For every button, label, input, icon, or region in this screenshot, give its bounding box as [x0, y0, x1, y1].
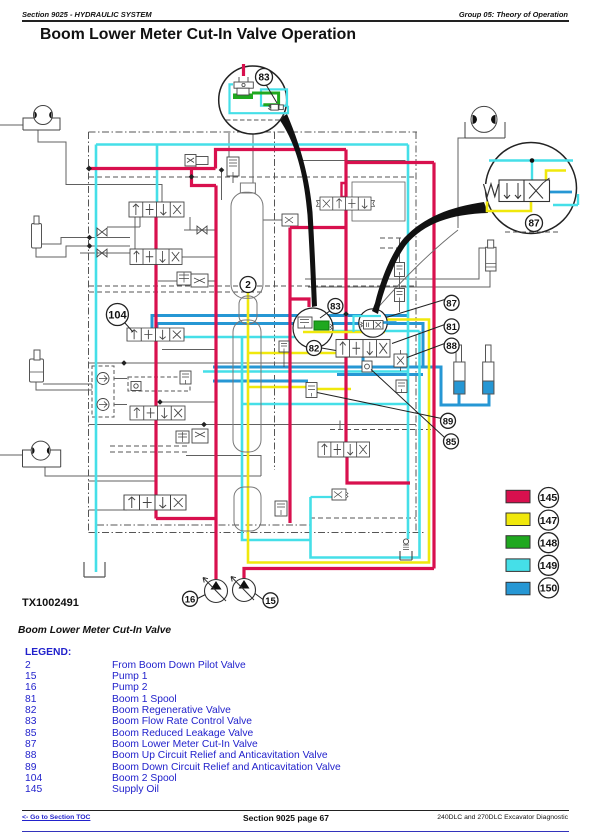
footer bottom rule: [22, 831, 569, 832]
wire supply x434 vertical: [432, 163, 435, 569]
wire supply valve5 down: [347, 457, 410, 483]
inset 83 spring: [330, 324, 332, 330]
wire cylinder2 A: [43, 383, 92, 385]
check to tank CT1: [400, 539, 412, 560]
svg-text:16: 16: [185, 594, 196, 605]
check valve CV2: [97, 249, 107, 257]
leader 83 top: [267, 86, 278, 104]
magnifier tail 87: [372, 202, 488, 314]
legend swatch 149: [506, 559, 530, 572]
valve V2: [130, 249, 182, 264]
wire y510 valve4: [89, 509, 128, 511]
inset yellow top right: [546, 171, 566, 181]
leader 82: [322, 348, 337, 351]
dash-dot border bottom: [89, 532, 425, 534]
svg-text:83: 83: [330, 302, 341, 313]
wire cyan y371: [203, 370, 408, 373]
svg-text:82: 82: [309, 344, 320, 355]
inset yellow U: [487, 202, 531, 212]
legend circle 149: [539, 555, 559, 575]
magnifier circle 87: [486, 143, 577, 234]
load sense cylinder CYL3: [486, 240, 496, 271]
wire swivel pipe: [458, 138, 465, 228]
svg-text:104: 104: [108, 310, 127, 322]
legend swatch 150: [506, 582, 530, 595]
pump P16: [203, 578, 228, 603]
wire sensor drop: [221, 169, 223, 201]
inset 87 valve: [361, 321, 384, 330]
inset 87 cyan: [354, 316, 382, 332]
inset dashes: [505, 231, 560, 233]
wire supply up corner: [216, 150, 347, 169]
wire loadsense y279: [305, 248, 486, 279]
dash-dot border left: [88, 132, 90, 533]
motor M1: [23, 106, 60, 131]
node circle 89: [441, 413, 456, 428]
wire y402: [156, 401, 216, 403]
wire check to crimson: [184, 229, 216, 231]
wire compensatorA left: [158, 280, 177, 282]
dash-dot border top: [89, 131, 418, 133]
svg-text:83: 83: [258, 73, 270, 84]
wire valve5 drop: [339, 421, 341, 430]
small valve SV1: [180, 371, 191, 384]
small valve SVa: [395, 263, 405, 277]
tank T1: [84, 562, 105, 577]
inset 83 yellow line: [303, 331, 385, 333]
dashed line y446: [110, 445, 190, 447]
wire supply y518: [156, 517, 216, 520]
leakage valve VC cyan: [332, 489, 348, 500]
wire cyan drop valve1: [156, 145, 159, 203]
curve to swivel pipe: [376, 230, 458, 310]
small valve SV2: [275, 501, 287, 516]
check valve CV1: [97, 228, 107, 236]
inset cyan top: [489, 161, 573, 182]
pressure bottle B3: [234, 487, 261, 531]
wire blue spool104 lower: [157, 324, 423, 368]
small valve SV88: [394, 350, 407, 371]
inset circle 87: [359, 309, 387, 337]
legend circle 147: [539, 510, 559, 530]
leader 87: [386, 300, 445, 318]
wire box outline right: [352, 182, 405, 221]
pilot valve SVY yellow: [306, 383, 317, 398]
figure id TX1002491: [22, 597, 79, 609]
inset dashed line: [226, 119, 281, 121]
magnifier circle 83: [219, 66, 287, 134]
figure caption: [18, 625, 171, 636]
wire cyan right vertical: [407, 145, 410, 540]
wire valve1 work port: [107, 217, 140, 227]
wire cyan drain: [311, 331, 420, 558]
wire dash drop b: [252, 133, 254, 183]
svg-text:148: 148: [540, 537, 558, 549]
wire cyan loop: [242, 337, 311, 540]
inset junction dot: [530, 158, 535, 163]
legend swatch 147: [506, 513, 530, 526]
node circle 88: [444, 338, 459, 353]
wire yellow pilot main: [248, 292, 429, 563]
wire cyan y331: [333, 330, 420, 333]
leader 85: [371, 370, 445, 438]
node circle 85: [444, 434, 459, 449]
node circle 83: [328, 299, 343, 314]
dashed stub right top: [380, 238, 402, 248]
relief valve RV1: [185, 155, 208, 167]
dashed line y292: [89, 291, 262, 293]
wire cyan y497: [311, 496, 333, 498]
wire valve2 right: [182, 256, 216, 258]
dashed box checks: [92, 366, 114, 417]
dashed line y286: [89, 285, 416, 287]
svg-text:87: 87: [528, 219, 540, 230]
wire cylinder1 A: [42, 238, 131, 245]
valve V5: [318, 442, 370, 457]
check valve CV3: [197, 226, 207, 234]
svg-text:145: 145: [540, 492, 558, 504]
dash-dot line y525: [97, 524, 310, 526]
anticav check AC2: [97, 399, 109, 411]
label circle 87 inset: [526, 215, 543, 232]
footer right text: [437, 814, 568, 821]
inset pilot valve: [234, 77, 253, 95]
wire smallvalve drop: [232, 176, 234, 183]
svg-text:147: 147: [540, 515, 558, 527]
node circle 104: [106, 304, 128, 326]
wire supply y162: [346, 161, 434, 164]
legend rows: [25, 660, 31, 671]
wire blue valve81 stub: [362, 357, 365, 367]
wire dash drop a: [228, 133, 230, 157]
wire supply y227: [290, 226, 346, 229]
wire valve1 port A: [134, 217, 136, 249]
wire blue main y367: [213, 367, 489, 405]
legend swatch 148: [506, 536, 530, 549]
wire cyan y337: [184, 336, 298, 339]
reduced leakage box SV85: [362, 361, 372, 372]
inset 83 valve body: [298, 317, 312, 329]
inset valve 87: [484, 178, 550, 202]
wire cylinder1 B: [36, 246, 130, 257]
wire x399 vertical: [399, 238, 401, 312]
wire y160: [300, 160, 406, 162]
magnifier tail 83: [279, 114, 317, 307]
orifice box OB1: [131, 382, 141, 391]
accumulator ACC2: [483, 345, 494, 394]
valve V104 boom2 spool: [127, 328, 184, 341]
anticav check AC1: [97, 373, 109, 385]
inset circle 83: [293, 308, 333, 348]
wire valve1 port B: [189, 217, 191, 230]
dashed line y429: [330, 429, 434, 431]
dashed line y518: [310, 517, 416, 519]
valve V1 boom spool: [129, 202, 184, 217]
pressure switch PS1: [263, 219, 282, 221]
inset cyan right: [553, 194, 578, 205]
footer rule: [22, 810, 569, 811]
dash-dot border right: [415, 132, 417, 532]
motor M2: [23, 441, 61, 467]
wire motor1 feed: [0, 124, 23, 126]
valve V81 boom1 spool: [336, 340, 390, 358]
wire check2 out: [114, 404, 127, 406]
legend swatch 145: [506, 490, 530, 503]
wire blue cylinder tap: [458, 394, 461, 405]
wire yellow y387: [248, 386, 307, 389]
swivel motor M3: [465, 106, 505, 138]
svg-text:149: 149: [540, 560, 558, 572]
dashed box compensator: [128, 377, 190, 391]
inset 83 green valve: [314, 321, 329, 330]
wire y455: [186, 456, 261, 477]
inset green path: [233, 94, 253, 100]
footer page number: [243, 813, 329, 823]
compensator CP1: [177, 272, 208, 287]
leader 16: [198, 595, 206, 599]
node circle 87: [444, 295, 459, 310]
wire check1 out: [114, 378, 127, 380]
wire supply y168: [89, 167, 216, 170]
wire supply jog: [342, 183, 347, 197]
inset 87 blue: [382, 321, 397, 324]
relief valve RV2: [227, 157, 239, 176]
node circle 81: [444, 319, 459, 334]
wire motor2 pipe: [45, 467, 261, 476]
small valve SV89: [396, 380, 407, 393]
page title: [40, 26, 356, 44]
pump P15: [231, 577, 256, 602]
svg-text:85: 85: [446, 437, 457, 448]
dashed line y452: [110, 451, 190, 453]
wire supply branch to 83: [290, 299, 309, 307]
legend circle 145: [539, 488, 559, 508]
node circle 15: [263, 593, 278, 608]
node circle 82: [307, 341, 322, 356]
header left text: [22, 10, 152, 19]
svg-text:81: 81: [446, 322, 457, 333]
wire y481: [89, 480, 157, 482]
wire motor2 feed: [0, 454, 23, 456]
dashed line y177: [89, 176, 416, 178]
svg-text:89: 89: [443, 416, 454, 427]
wire supply x290 vertical: [288, 228, 291, 524]
wire loadsense y287: [308, 271, 490, 287]
wire supply x156 vertical: [154, 217, 157, 519]
svg-text:15: 15: [265, 596, 276, 607]
wire cyan left vertical: [95, 145, 98, 573]
wire supply step: [192, 169, 217, 186]
inset blue right: [550, 191, 573, 194]
wire blue y381: [213, 380, 308, 383]
wire motor1 to valve1: [38, 130, 162, 202]
svg-text:2: 2: [245, 280, 251, 291]
label circle 83 top: [256, 69, 273, 86]
wire yellow y353: [248, 352, 338, 355]
leader 104: [125, 323, 134, 333]
inset cyan body: [230, 84, 289, 113]
inset small valve: [269, 104, 284, 110]
legend circle 150: [539, 578, 559, 598]
leader 83: [320, 311, 331, 319]
cylinder CYL1: [32, 216, 42, 248]
wire y349: [162, 349, 216, 351]
leader 15: [255, 594, 263, 600]
svg-text:88: 88: [446, 341, 457, 352]
wire cyan y404: [242, 403, 408, 406]
junction dots: [86, 111, 349, 427]
pressure bottle B2: [233, 296, 261, 452]
valve V3: [130, 406, 185, 420]
small valve SVb: [395, 289, 405, 302]
dash-dot center vertical: [274, 132, 276, 470]
wire supply pump15: [244, 569, 434, 580]
header rule: [22, 20, 569, 22]
cylinder CYL2: [30, 350, 44, 382]
legend circle 148: [539, 533, 559, 553]
accumulator ACC1: [454, 345, 465, 394]
wire cylinder2 B: [36, 382, 92, 390]
wire bowtie2 line: [80, 252, 130, 254]
header right text: [459, 10, 568, 19]
wire compensatorA right: [208, 280, 216, 282]
small valve SV82: [279, 341, 289, 367]
valve V4: [124, 495, 186, 510]
leader 81: [392, 325, 445, 344]
wire relief drop: [195, 166, 197, 169]
svg-text:87: 87: [446, 298, 457, 309]
wire yellow y389: [317, 388, 351, 391]
inset green loop: [252, 93, 279, 105]
node circle 2: [240, 277, 256, 293]
legend title: [25, 647, 71, 658]
wire blue loop y374: [337, 373, 423, 376]
leader 88: [407, 344, 445, 358]
valve V6 top right: [316, 197, 374, 210]
pressure bottle B1: [231, 183, 263, 298]
svg-text:150: 150: [540, 583, 558, 595]
node circle 16: [183, 591, 198, 606]
wire y425: [89, 424, 417, 426]
wire supply x216 vertical: [214, 186, 217, 580]
leader 89: [317, 393, 442, 419]
footer link: [22, 814, 90, 821]
wire y363: [89, 362, 347, 364]
wire blue spool104 upper: [152, 316, 408, 329]
wire cyan top y144: [96, 143, 408, 146]
compensator CP2: [176, 429, 208, 443]
inset crimson stub: [242, 64, 245, 76]
wire supply x346 vertical: [344, 150, 347, 443]
